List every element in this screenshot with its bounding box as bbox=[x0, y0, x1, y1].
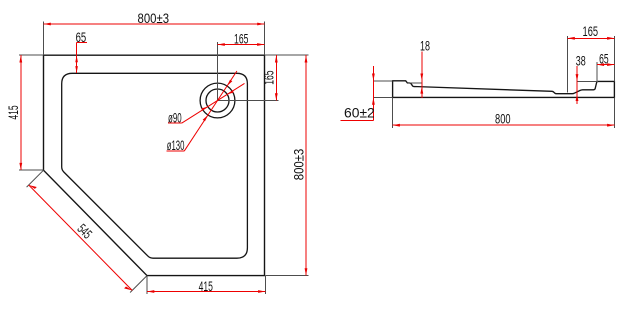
dimension 415 bottom: line bbox=[147, 291, 265, 293]
dimension 165 side: right arrow bbox=[607, 37, 614, 40]
svg-text:ø90: ø90 bbox=[168, 110, 182, 125]
svg-text:165: 165 bbox=[262, 70, 277, 84]
dimension 415 left side: bottom arrow bbox=[19, 163, 22, 170]
extension for 545 dim upper end bbox=[27, 170, 44, 187]
dimension 800±3 right side: bottom arrow bbox=[305, 268, 308, 275]
dimension 415 left side: top arrow bbox=[19, 55, 22, 62]
svg-text:65: 65 bbox=[599, 51, 609, 66]
leader ø90: diagonal line bbox=[182, 83, 245, 123]
dimension 415 bottom: right arrow bbox=[258, 290, 265, 293]
dimension 38: vertical line bbox=[576, 66, 578, 104]
svg-text:18: 18 bbox=[420, 38, 430, 53]
svg-text:545: 545 bbox=[74, 221, 95, 242]
svg-text:38: 38 bbox=[576, 53, 586, 68]
drain horizontal centerline / extension for 165 right dim bbox=[218, 100, 279, 102]
extension below bottom-left corner (415 bottom dim) bbox=[146, 276, 148, 294]
dimension 65 side view: line bbox=[597, 64, 615, 66]
extension of top edge to the left (415 left dim) bbox=[19, 54, 44, 56]
extension at lower-left corner (415 left dim) bbox=[19, 169, 44, 171]
side view: thin shelf line at step bbox=[408, 82, 422, 84]
dimension 800 side view: line bbox=[393, 124, 615, 126]
svg-text:165: 165 bbox=[583, 24, 599, 39]
svg-text:60±2: 60±2 bbox=[344, 105, 375, 120]
extension line top-right vertical (800 top dim) bbox=[264, 22, 266, 56]
svg-text:800: 800 bbox=[495, 112, 511, 127]
side view: extension top-left (60±2) bbox=[373, 80, 392, 82]
dimension 165 right side: bottom arrow bbox=[275, 93, 278, 100]
leader ø90: upper arrow on inner circle bbox=[227, 90, 234, 94]
dimension 165 top: left arrow bbox=[218, 43, 225, 46]
dimension 415 left side vertical: line bbox=[20, 55, 22, 170]
dimension 800±3 right side vertical: line bbox=[305, 55, 307, 275]
svg-text:ø130: ø130 bbox=[167, 138, 185, 153]
dimension 38: lower arrow (up) bbox=[576, 94, 579, 101]
dimension 60±2: lower arrow (up) bbox=[372, 97, 375, 104]
svg-text:415: 415 bbox=[6, 105, 21, 119]
extension of top edge to the right (165/800 right dims) bbox=[265, 54, 309, 56]
side view: extension for 65 left end bbox=[596, 62, 598, 81]
dimension 415 bottom: left arrow bbox=[147, 290, 154, 293]
extension below bottom-right corner (415 bottom dim) bbox=[264, 276, 266, 294]
dimension 800±3 top: right arrow bbox=[257, 23, 264, 26]
side view: extension left edge below (800) bbox=[392, 97, 394, 128]
dimension 60±2: upper arrow (down) bbox=[372, 74, 375, 81]
extension line top-left vertical (800 top dim) bbox=[43, 22, 45, 56]
leader ø90: lower arrow on inner circle bbox=[201, 107, 208, 111]
dimension 165 top: line bbox=[218, 44, 265, 46]
dimension 800 side: left arrow bbox=[393, 124, 400, 127]
dimension 18: vertical line bbox=[421, 52, 423, 99]
dimension 800 side: right arrow bbox=[607, 124, 614, 127]
dimension 800±3 top: line bbox=[44, 23, 265, 25]
leader ø130: lower arrow on outer circle bbox=[203, 115, 208, 121]
side view: extension drain center vertical (165) bbox=[567, 36, 569, 93]
dimension 65: down arrow bbox=[75, 66, 78, 73]
leader ø130: shelf under text bbox=[167, 150, 185, 152]
dimension 18: upper arrow (down) bbox=[420, 74, 423, 81]
dimension 545 diagonal: line bbox=[29, 185, 133, 290]
dimension 65 side: right arrow bbox=[607, 63, 614, 66]
drain inner circle bbox=[206, 89, 229, 112]
top view: outer pentagon outline bbox=[44, 55, 265, 275]
dimension 60±2: underline below text bbox=[341, 119, 374, 121]
side view: extension right edge above profile (165) bbox=[613, 36, 615, 81]
leader ø90: shelf under text bbox=[168, 122, 182, 124]
svg-text:165: 165 bbox=[234, 31, 248, 46]
dimension 65 side: left arrow bbox=[597, 63, 604, 66]
top view: inner rounded pentagon (tray basin edge) bbox=[62, 73, 248, 258]
side view: extension right edge below (800) bbox=[613, 97, 615, 128]
dimension 545: upper arrow bbox=[29, 185, 37, 189]
extension of bottom edge to the right (800 right dim) bbox=[265, 275, 308, 277]
dimension 165 top: right arrow bbox=[257, 43, 264, 46]
svg-text:800±3: 800±3 bbox=[138, 11, 170, 26]
dimension 65: up arrow bbox=[75, 55, 78, 62]
dimension 165 side view: line bbox=[568, 37, 615, 39]
svg-text:65: 65 bbox=[76, 30, 87, 45]
leader ø130: diagonal line bbox=[184, 71, 237, 151]
svg-text:800±3: 800±3 bbox=[292, 149, 307, 181]
dimension 165 right side: top arrow bbox=[275, 55, 278, 62]
drain vertical centerline / extension for 165 top dim bbox=[217, 42, 219, 101]
dimension 65: shelf under text bbox=[77, 41, 87, 43]
dimension 165 right side vertical: line bbox=[275, 55, 277, 100]
side view: tray section profile bbox=[393, 81, 615, 98]
dimension 18: lower arrow (up) bbox=[420, 86, 423, 93]
dimension 65: vertical line bbox=[76, 42, 78, 73]
drain outer circle bbox=[200, 83, 235, 118]
dimension 165 side: left arrow bbox=[568, 37, 575, 40]
dimension 60±2: vertical line bbox=[372, 66, 374, 120]
leader ø130: upper arrow on outer circle bbox=[227, 80, 232, 86]
dimension 800±3 top: left arrow bbox=[44, 23, 51, 26]
side view: extension bottom-left (60±2) bbox=[373, 96, 392, 98]
side view: extension of ledge top to the left (38) bbox=[577, 80, 598, 82]
extension for 545 dim lower end bbox=[130, 276, 147, 293]
dimension 38: upper arrow (down) bbox=[576, 74, 579, 81]
svg-text:415: 415 bbox=[199, 279, 213, 294]
dimension 545: lower arrow bbox=[124, 287, 132, 291]
dimension 800±3 right side: top arrow bbox=[305, 55, 308, 62]
